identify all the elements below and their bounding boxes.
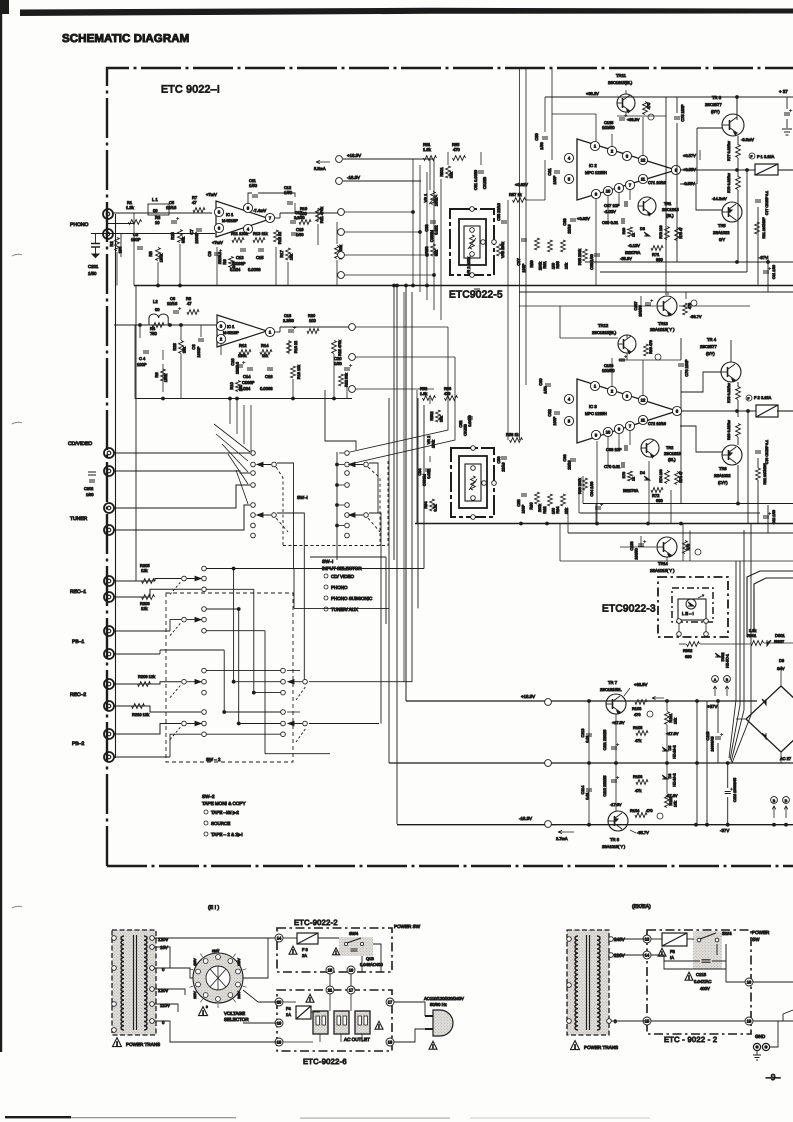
- svg-text:1000P: 1000P: [194, 232, 199, 244]
- VR2 lower outer box: [451, 448, 494, 517]
- svg-text:8.2k: 8.2k: [434, 504, 438, 511]
- pin IC3 6: [614, 424, 623, 433]
- svg-text:HZ-18-2: HZ-18-2: [673, 773, 677, 786]
- op-amp IC1b: [217, 315, 267, 347]
- svg-text:R63: R63: [555, 261, 560, 269]
- resistor R102: [665, 795, 670, 808]
- resistor R76: [675, 472, 680, 485]
- svg-text:ETC9022-3: ETC9022-3: [602, 604, 656, 615]
- capacitor C11B: [702, 960, 711, 962]
- warning C11B: [685, 972, 693, 980]
- svg-text:D902: D902: [721, 653, 725, 662]
- svg-text:PHONO: PHONO: [70, 222, 88, 228]
- switch SW2 contact a8: [202, 679, 207, 684]
- svg-text:Q1B: Q1B: [366, 956, 374, 961]
- pin IC2 10: [603, 186, 612, 195]
- diode D6: [662, 775, 668, 779]
- wire pb1a: [114, 630, 170, 632]
- svg-text:R68 200k: R68 200k: [578, 478, 582, 494]
- wire F1: [680, 169, 755, 171]
- svg-text:PB–2: PB–2: [72, 741, 84, 747]
- svg-text:M-5218P: M-5218P: [222, 218, 238, 223]
- wire opamp out: [274, 217, 280, 219]
- wire IC2 pin7: [629, 189, 631, 200]
- switch SW1 contact R8: [345, 533, 350, 538]
- svg-text:VOLTAGE: VOLTAGE: [224, 1011, 245, 1016]
- svg-text:1/50: 1/50: [284, 190, 293, 195]
- svg-text:11k: 11k: [262, 353, 268, 358]
- svg-text:C112 220/25: C112 220/25: [603, 776, 607, 797]
- resistor R51: [424, 156, 437, 161]
- potentiometer VR1: [431, 192, 436, 205]
- svg-text:680: 680: [685, 654, 692, 659]
- svg-text:110V: 110V: [212, 949, 220, 953]
- wire TR11 supply: [545, 96, 793, 98]
- wire bundle v5: [417, 398, 419, 608]
- svg-text:F3: F3: [670, 949, 676, 954]
- resistor R53: [431, 244, 436, 256]
- potentiometer VR3: [497, 244, 502, 256]
- resistor R501: [446, 166, 451, 178]
- switch SW1 contact R1: [345, 451, 350, 456]
- svg-text:C71 10/16: C71 10/16: [648, 180, 666, 185]
- wire SW1 wiper out R2: [369, 513, 381, 724]
- wire IC3 pin9: [596, 441, 598, 523]
- wire pb1b: [114, 653, 160, 655]
- svg-text:R105: R105: [633, 725, 642, 730]
- T2 secondary coil: [597, 936, 600, 1030]
- resistor R105: [636, 731, 648, 736]
- wire bridge out: [780, 752, 782, 763]
- svg-text:0.0039: 0.0039: [468, 415, 472, 426]
- svg-text:-1.08V: -1.08V: [604, 209, 616, 214]
- svg-text:R501: R501: [439, 167, 444, 176]
- margin mark 2: [12, 422, 22, 424]
- pin 2 IC1b: [216, 334, 225, 343]
- wire IC3 pin6: [618, 433, 620, 448]
- wire TR4 col: [681, 372, 721, 392]
- svg-text:IA: IA: [670, 955, 674, 960]
- svg-text:F: F: [751, 155, 753, 159]
- AC outlet 3: [355, 1011, 370, 1034]
- svg-text:R80 0.22/1w: R80 0.22/1w: [727, 420, 731, 440]
- svg-text:100P: 100P: [522, 504, 526, 513]
- svg-text:R11 130k: R11 130k: [231, 231, 248, 236]
- svg-text:C54: C54: [418, 469, 422, 476]
- svg-text:AC110/120/220/240V: AC110/120/220/240V: [424, 996, 464, 1001]
- svg-text:F4: F4: [286, 1006, 291, 1011]
- svg-text:1/50: 1/50: [334, 361, 343, 366]
- svg-text:R64: R64: [555, 506, 560, 514]
- terminal D: [783, 797, 790, 804]
- resistor R56: [445, 396, 458, 401]
- legend item PHONO: [324, 585, 328, 589]
- rail -16.9V: [397, 824, 793, 826]
- svg-text:-14.2mV: -14.2mV: [712, 196, 727, 201]
- svg-text:!: !: [116, 1042, 118, 1048]
- resistor R73: [665, 227, 670, 240]
- svg-text:680: 680: [656, 498, 663, 503]
- wire bundle v3: [405, 286, 407, 702]
- wire bus52: [415, 523, 793, 525]
- svg-text:C113: C113: [581, 729, 585, 738]
- svg-text:+ 37: + 37: [779, 89, 788, 94]
- LED LE-1: [686, 599, 696, 609]
- svg-text:C70 0.01: C70 0.01: [604, 464, 621, 469]
- svg-text:C093P: C093P: [242, 380, 255, 385]
- svg-text:AC OUTLET: AC OUTLET: [344, 1037, 370, 1042]
- svg-text:C55 22/16: C55 22/16: [497, 203, 501, 221]
- svg-text:240V: 240V: [237, 990, 241, 998]
- power transformer T2 box: [567, 930, 609, 1035]
- svg-text:R101: R101: [669, 713, 673, 722]
- svg-text:C61: C61: [547, 168, 552, 176]
- switch SW2 contact a4: [202, 607, 207, 612]
- svg-text:14: 14: [645, 953, 650, 958]
- wire bundle v4: [411, 292, 413, 682]
- svg-text:10/16: 10/16: [166, 205, 177, 210]
- svg-text:+33.5V: +33.5V: [634, 682, 648, 687]
- page corner mark: [0, 0, 9, 14]
- capacitor C17: [290, 221, 296, 223]
- svg-text:1k: 1k: [632, 477, 636, 481]
- T1 secondary coil: [144, 936, 147, 1030]
- svg-text:TR 4: TR 4: [707, 337, 717, 342]
- wire bundle joins: [403, 292, 405, 682]
- svg-text:14: 14: [277, 936, 282, 941]
- capacitor C52: [467, 417, 473, 419]
- svg-text:!: !: [574, 1045, 576, 1051]
- svg-text:POWER SW: POWER SW: [394, 924, 421, 929]
- svg-text:-16.9V: -16.9V: [519, 816, 532, 821]
- svg-text:16: 16: [747, 980, 752, 985]
- svg-text:POWER TRANS: POWER TRANS: [126, 1042, 160, 1047]
- capacitor C6: [173, 311, 179, 313]
- svg-text:-0.13V: -0.13V: [628, 243, 640, 248]
- svg-text:33k: 33k: [440, 416, 444, 422]
- switch SW2 wiper dash w3: [170, 685, 181, 698]
- svg-text:–9–: –9–: [766, 1072, 780, 1082]
- bottom rule faint gray 2: [300, 1118, 450, 1119]
- transistor TR11: [617, 94, 635, 112]
- svg-text:C72 10/16: C72 10/16: [648, 421, 666, 426]
- VR2 upper pot: [470, 235, 475, 249]
- legend item SOURCE: [204, 821, 208, 825]
- connector REC-2 R: [104, 701, 114, 711]
- svg-text:100P: 100P: [553, 175, 557, 184]
- capacitor C60: [545, 384, 551, 386]
- svg-text:SELECTOR: SELECTOR: [224, 1017, 249, 1022]
- resistor R63: [561, 240, 566, 252]
- capacitor C75: [674, 117, 680, 119]
- resistor R75: [675, 228, 680, 241]
- resistor R26: [179, 341, 184, 354]
- pin 7 IC1a: [265, 213, 274, 222]
- arrow A: [713, 686, 717, 696]
- svg-text:240V: 240V: [614, 937, 626, 942]
- wire top verticals: [519, 68, 521, 286]
- fuse F1 box: [755, 164, 778, 175]
- pin 15: [326, 966, 334, 974]
- svg-text:150k: 150k: [159, 254, 164, 262]
- wire IC2 out: [680, 169, 723, 171]
- capacitor C15: [258, 249, 264, 251]
- pin IC3 8: [672, 406, 681, 415]
- transistor TR12: [618, 335, 636, 353]
- switch SW1 wiper R2: [364, 513, 369, 518]
- pin 14: [275, 934, 283, 942]
- svg-text:100k: 100k: [435, 198, 439, 206]
- warning F3: [289, 946, 297, 954]
- svg-text:3.15A: 3.15A: [761, 395, 772, 400]
- svg-text:F 2: F 2: [754, 395, 760, 400]
- svg-text:C 4: C 4: [139, 356, 146, 361]
- power transformer T1 box: [112, 930, 156, 1035]
- svg-text:+16.9V: +16.9V: [521, 694, 535, 699]
- capacitor C57: [521, 239, 527, 241]
- wire TR2 bus: [595, 504, 597, 523]
- svg-text:R73 100: R73 100: [659, 225, 663, 238]
- switch SW1 contact R2: [345, 462, 350, 467]
- capacitor C5: [171, 221, 177, 223]
- svg-text:C52: C52: [459, 421, 463, 428]
- svg-text:R70: R70: [622, 472, 626, 478]
- capacitor C115: [715, 737, 721, 739]
- svg-text:C60: C60: [538, 378, 543, 386]
- pin IC3 12: [638, 395, 647, 404]
- pin 17: [347, 986, 355, 994]
- svg-text:TUNER: TUNER: [70, 516, 88, 522]
- switch SW2 contact a6: [202, 628, 207, 633]
- svg-text:13: 13: [645, 937, 650, 942]
- wire IC2 pin6: [618, 192, 620, 204]
- resistor R17: [286, 248, 291, 260]
- wire IC2 pin9: [595, 199, 597, 285]
- resistor R96: [644, 344, 649, 356]
- svg-text:PB–1: PB–1: [72, 639, 84, 645]
- board ETC-9022-2 EK box: [647, 930, 751, 1034]
- svg-text:47: 47: [192, 200, 197, 205]
- wire IC3 out: [681, 410, 721, 412]
- wire le1: [678, 623, 680, 632]
- transistor TR3: [722, 114, 744, 136]
- svg-text:3.15A: 3.15A: [764, 154, 775, 159]
- pin IC3 1: [590, 381, 599, 390]
- wire gnd: [770, 1021, 778, 1047]
- svg-text:10k: 10k: [674, 801, 678, 807]
- svg-text:HZ-18-2: HZ-18-2: [673, 745, 677, 758]
- wire sel to boxes: [243, 938, 268, 978]
- resistor R61: [548, 240, 553, 252]
- svg-text:R2: R2: [109, 241, 114, 247]
- svg-text:VR3 250k: VR3 250k: [501, 242, 505, 258]
- pin IC3 10: [603, 427, 612, 436]
- svg-text:D9: D9: [779, 658, 785, 663]
- bottom rule faint gray: [71, 1117, 236, 1118]
- svg-text:0.047/AC: 0.047/AC: [694, 979, 711, 984]
- svg-text:19: 19: [277, 1021, 282, 1026]
- wire F2: [681, 410, 756, 412]
- svg-text:R13 11k: R13 11k: [253, 231, 268, 236]
- terminal B: [724, 676, 731, 683]
- resistor R69: [628, 227, 633, 237]
- svg-text:C201: C201: [88, 264, 99, 269]
- wire box6 internals: [329, 994, 331, 1011]
- svg-text:0.022: 0.022: [427, 469, 431, 478]
- switch SW1 contact R7: [345, 523, 350, 528]
- svg-text:ETC-9022-6: ETC-9022-6: [303, 1057, 347, 1066]
- resistor R20: [307, 329, 319, 334]
- capacitor C14: [247, 368, 253, 370]
- resistor R8: [187, 310, 199, 315]
- T1 taps: [150, 936, 155, 941]
- svg-text:F: F: [748, 397, 750, 401]
- svg-text:100/50: 100/50: [602, 368, 615, 373]
- wire pb2b: [114, 756, 170, 758]
- svg-text:R58 1k: R58 1k: [506, 432, 519, 437]
- svg-text:D5: D5: [668, 746, 672, 751]
- svg-text:C14: C14: [243, 374, 251, 379]
- svg-text:C53: C53: [424, 224, 429, 231]
- svg-text:R104: R104: [630, 808, 640, 813]
- svg-text:2SC1815: 2SC1815: [662, 207, 679, 212]
- LED LE-1 box: [678, 599, 706, 620]
- capacitor C76: [678, 364, 684, 366]
- wire tr5 em: [680, 184, 722, 210]
- svg-text:100k: 100k: [432, 440, 436, 448]
- voltage selector pins: [216, 955, 221, 960]
- ground top right: [784, 113, 790, 115]
- svg-text:0.048AC400: 0.048AC400: [360, 962, 383, 967]
- wire right rails top: [737, 136, 739, 145]
- ground GND: [753, 1051, 761, 1060]
- wire bus53: [568, 532, 793, 534]
- capacitor C137: [645, 303, 651, 305]
- wire right nest 2: [754, 578, 793, 630]
- resistor R902: [687, 642, 700, 647]
- diode D901: [767, 640, 771, 646]
- switch SW2 wipers R: [303, 679, 308, 684]
- switch SW1 contact L4: [251, 483, 256, 488]
- resistor R68: [583, 478, 588, 490]
- svg-text:100P: 100P: [137, 362, 147, 367]
- resistor R106: [636, 780, 648, 785]
- arrow H: [772, 806, 788, 818]
- svg-text:10k: 10k: [290, 254, 294, 260]
- svg-text:C62: C62: [547, 409, 552, 417]
- board ETC-9022-2 box: [277, 928, 392, 972]
- resistor R79: [736, 177, 741, 190]
- node -16.9V: [336, 178, 343, 185]
- VR2 upper inner box: [459, 219, 486, 265]
- svg-text:R60: R60: [529, 502, 534, 510]
- svg-text:18: 18: [388, 1040, 393, 1045]
- svg-text:IS2076A: IS2076A: [625, 250, 641, 255]
- wire SW1 wiper out L1: [277, 463, 294, 569]
- wire t2 240: [613, 938, 645, 940]
- svg-text:IC 1: IC 1: [227, 324, 235, 329]
- transistor TR8: [608, 811, 628, 831]
- pin IC2 1: [590, 141, 599, 150]
- svg-text:470: 470: [646, 808, 653, 813]
- wire f3b sw4b: [687, 938, 694, 940]
- svg-text:R22 33k: R22 33k: [345, 373, 349, 387]
- svg-text:10k: 10k: [565, 508, 569, 514]
- svg-text:TR2: TR2: [666, 445, 673, 450]
- switch SW2 contact a5: [202, 617, 207, 622]
- capacitor sw4: [351, 949, 358, 951]
- svg-text:TR5: TR5: [718, 223, 726, 228]
- svg-text:CK45B: CK45B: [464, 424, 468, 436]
- svg-text:+7mV: +7mV: [212, 240, 223, 245]
- wire t2 220: [613, 954, 645, 956]
- wire SW1 right feed: [325, 390, 356, 450]
- svg-text:10k: 10k: [565, 263, 569, 269]
- transistor TR6: [722, 445, 742, 465]
- svg-text:12k: 12k: [141, 606, 149, 611]
- wire tun2: [114, 505, 250, 530]
- wire SW1 right spine: [336, 452, 338, 560]
- node rails: [588, 700, 591, 703]
- main border: [107, 68, 793, 866]
- wire sw4 out: [373, 944, 381, 972]
- capacitor C59: [542, 137, 548, 139]
- switch SW2 contact a12: [202, 732, 207, 737]
- svg-text:100/50: 100/50: [635, 548, 639, 559]
- AC outlet 1: [313, 1011, 328, 1034]
- wire bundle v1: [388, 398, 390, 763]
- svg-text:2SC2577: 2SC2577: [700, 344, 717, 349]
- svg-text:12: 12: [641, 158, 646, 163]
- diode D3: [644, 232, 650, 236]
- svg-text:R54: R54: [424, 502, 428, 509]
- wire plug: [394, 1002, 425, 1016]
- node out A: [338, 209, 345, 216]
- svg-text:D6: D6: [668, 774, 672, 779]
- svg-text:C59: C59: [534, 133, 539, 141]
- warning outlet: [375, 1021, 383, 1029]
- svg-text:220V: 220V: [614, 953, 626, 958]
- svg-text:IC 1: IC 1: [226, 212, 234, 217]
- svg-text:R502: R502: [430, 411, 434, 420]
- svg-text:400V: 400V: [700, 986, 710, 991]
- resistor R21: [335, 246, 340, 259]
- switch SW2 wiper dash w4: [170, 727, 181, 740]
- switch SW2 wiper w1: [182, 576, 187, 581]
- svg-text:REC–1: REC–1: [70, 589, 86, 595]
- capacitor C114: [586, 789, 592, 791]
- svg-text:R209 12k: R209 12k: [138, 674, 155, 679]
- svg-text:12k: 12k: [141, 568, 149, 573]
- switch SW2 contact c4: [281, 710, 286, 715]
- svg-text:TAPE – 2 & 2▶I: TAPE – 2 & 2▶I: [211, 832, 243, 837]
- resistor R52: [423, 396, 436, 401]
- svg-text:R10: R10: [229, 382, 234, 390]
- svg-text:C093M: C093M: [423, 474, 427, 486]
- svg-text:TR 7: TR 7: [608, 680, 618, 685]
- margin mark 3: [12, 906, 22, 908]
- pin 1 IC1b: [265, 327, 274, 336]
- transistor TR14: [657, 537, 677, 557]
- svg-text:AC 27: AC 27: [780, 756, 792, 761]
- AC outlet 2: [334, 1011, 349, 1034]
- wire tr4 col: [730, 340, 732, 362]
- wire sw4b out: [716, 944, 718, 955]
- bridge rectifier D9: [746, 686, 793, 752]
- svg-text:R82 10/JNBF: R82 10/JNBF: [763, 463, 767, 484]
- resistor R71: [651, 246, 663, 251]
- pin IC2 11: [638, 174, 647, 183]
